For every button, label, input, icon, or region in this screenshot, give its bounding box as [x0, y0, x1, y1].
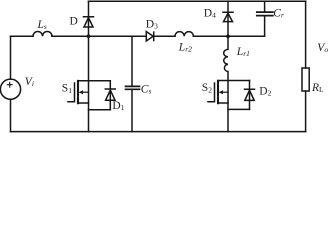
- wire left column bottom: [10, 99, 12, 131]
- svg-text:D: D: [70, 16, 78, 28]
- transistor S1 drain stub and D1 top wire: [78, 80, 110, 82]
- transistor S2 channel: [217, 81, 219, 103]
- wire D2 bottom: [228, 108, 250, 110]
- diode D2 lead: [249, 81, 251, 110]
- wire mid rail Ls to D3: [52, 35, 146, 37]
- capacitor Cr: [264, 1, 266, 36]
- svg-text:RL: RL: [311, 82, 324, 94]
- svg-text:Lr2: Lr2: [178, 41, 192, 53]
- capacitor Cs: [131, 36, 133, 131]
- svg-text:Cr: Cr: [273, 8, 284, 20]
- wire mid rail left: [11, 35, 34, 37]
- diode D4 lead: [227, 1, 229, 36]
- transistor S1 body arrow: [83, 91, 89, 93]
- resistor RL: [302, 68, 309, 91]
- transistor S2 source stub: [218, 102, 228, 104]
- diode D2 symbol: [245, 89, 255, 100]
- diode D4 symbol: [223, 12, 233, 21]
- wire right drop to load: [305, 1, 307, 68]
- svg-text:Lr1: Lr1: [236, 46, 250, 58]
- svg-text:D3: D3: [146, 18, 158, 30]
- svg-text:Ls: Ls: [37, 19, 47, 31]
- voltage source Vi plus sign: [7, 82, 12, 87]
- wire RL bottom lead: [305, 91, 307, 132]
- inductor Lr2: [175, 32, 193, 37]
- transistor S2 body arrow: [223, 91, 228, 93]
- svg-text:Vi: Vi: [25, 76, 34, 88]
- transistor S2 gate: [208, 83, 215, 102]
- transistor S1 channel: [77, 81, 79, 103]
- wire mid rail D3 to Lr2: [154, 35, 175, 37]
- svg-text:S2: S2: [202, 82, 212, 94]
- wire D1 bottom: [89, 109, 111, 111]
- wire mid rail Lr2 to Cr: [193, 35, 264, 37]
- svg-text:S1: S1: [62, 83, 72, 95]
- wire D branch vertical: [88, 1, 90, 131]
- svg-text:D4: D4: [204, 7, 216, 19]
- voltage source Vi circle: [0, 79, 20, 99]
- transistor S1 gate: [68, 83, 75, 102]
- diode D1 symbol: [105, 89, 115, 100]
- node B junction dot: [226, 34, 230, 38]
- svg-text:D2: D2: [259, 85, 271, 97]
- transistor S2 drain stub and D2 top wire: [218, 80, 250, 82]
- wire left column top: [10, 36, 12, 79]
- diode D1 lead: [109, 81, 111, 110]
- svg-text:Cs: Cs: [141, 83, 152, 95]
- diode D3: [146, 32, 153, 41]
- wire top rail: [89, 0, 306, 2]
- transistor S1 source stub: [78, 102, 89, 104]
- svg-text:Vo: Vo: [317, 42, 328, 54]
- svg-text:D1: D1: [112, 100, 124, 112]
- inductor Lr1: [224, 36, 228, 131]
- diode D symbol: [84, 17, 94, 27]
- wire bottom rail: [11, 131, 306, 133]
- inductor Ls: [33, 31, 52, 36]
- node A junction dot: [87, 34, 91, 38]
